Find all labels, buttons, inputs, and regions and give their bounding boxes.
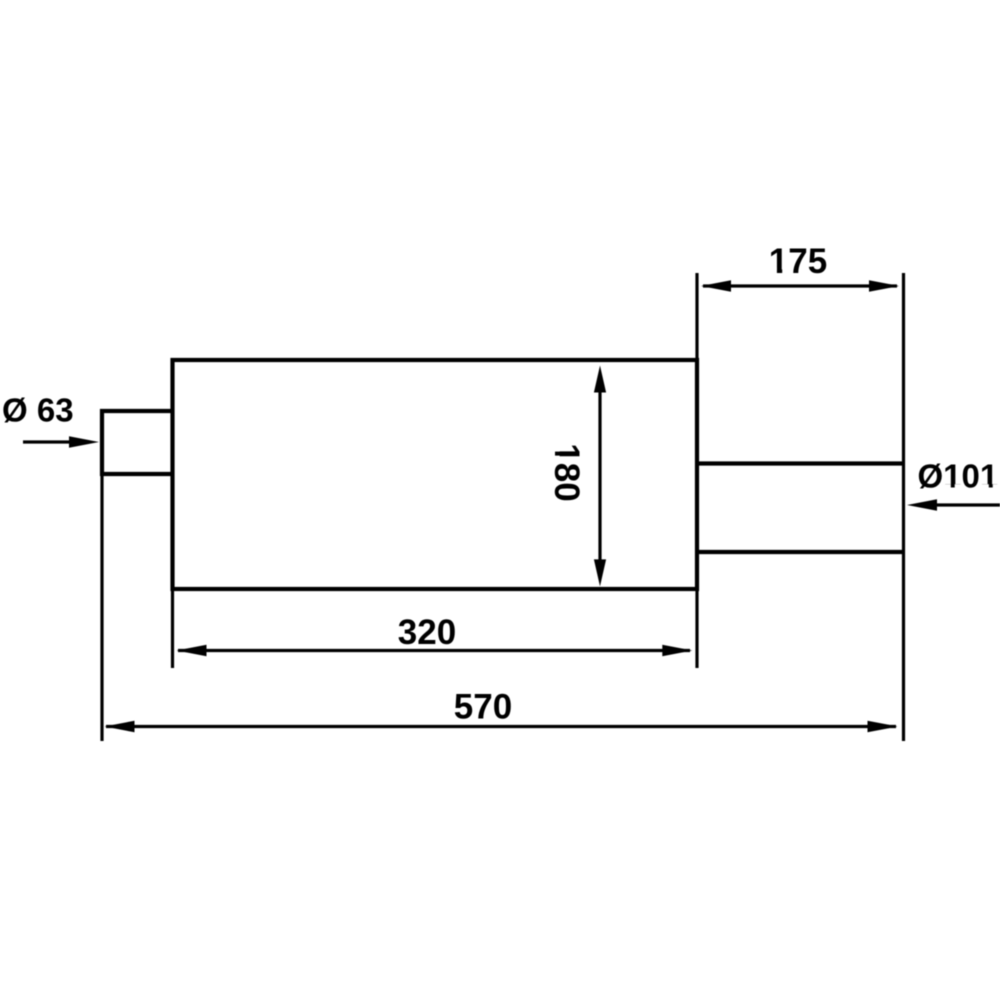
svg-text:570: 570: [454, 688, 512, 727]
svg-text:320: 320: [398, 613, 456, 652]
svg-text:Ø 63: Ø 63: [2, 392, 74, 429]
svg-text:175: 175: [769, 242, 827, 281]
svg-text:180: 180: [547, 443, 586, 501]
